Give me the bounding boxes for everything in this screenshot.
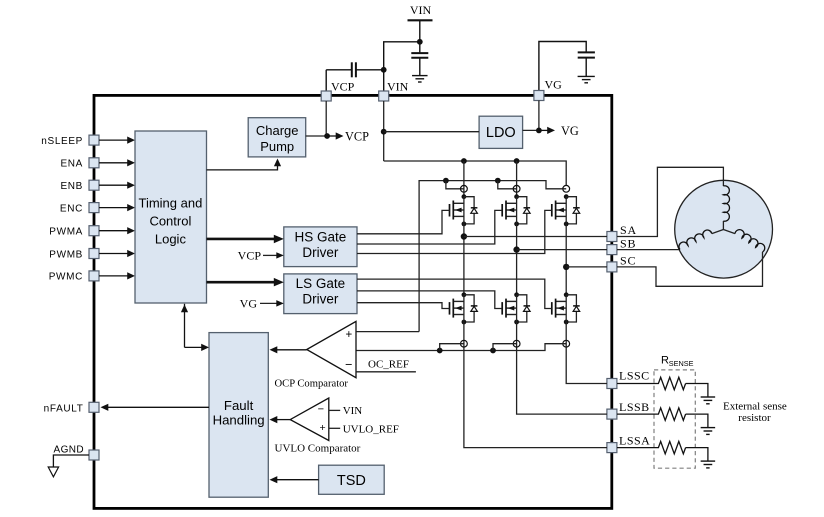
wire OCP tap elbow B [493, 344, 517, 351]
op-amp OCP comparator [307, 321, 356, 377]
transistor QB-LS (low-side B) [502, 292, 530, 324]
wire OCP output [270, 346, 307, 353]
wire UVLO output [270, 416, 291, 423]
wire ENA to logic [99, 159, 135, 166]
inductor winding B [679, 230, 723, 250]
svg-text:PWMB: PWMB [49, 249, 83, 260]
node OCP tap B [490, 348, 496, 354]
transistor QC-LS (low-side C) [552, 292, 580, 324]
node charge-pump/VCP junction [324, 133, 330, 139]
svg-text:SA: SA [620, 223, 637, 237]
sense tap bubble QC-LS [563, 340, 570, 347]
svg-text:External sense: External sense [723, 400, 787, 412]
svg-text:TSD: TSD [337, 473, 366, 489]
block Charge Pump [248, 118, 306, 157]
pin ENC [60, 203, 99, 215]
pin ENB [60, 180, 99, 192]
wire OCP sense line [356, 344, 566, 351]
pin nFAULT [44, 402, 99, 414]
block LS Gate Driver [284, 274, 357, 314]
svg-text:nFAULT: nFAULT [44, 403, 84, 414]
svg-text:Fault: Fault [224, 398, 254, 413]
pin LSSA [607, 433, 650, 452]
wire VCP pin to charge-pump output [325, 101, 327, 136]
wire LSSB vertical [517, 322, 607, 414]
wire LS gate B [357, 291, 502, 309]
pin VIN [379, 80, 409, 101]
svg-text:Driver: Driver [302, 292, 339, 307]
block TSD [319, 465, 385, 494]
pin ENA [60, 158, 99, 170]
capacitor C3 (VG bypass) [539, 42, 595, 92]
ground (RSENSE-C) [701, 397, 716, 404]
node phase B [513, 246, 519, 252]
wire nSLEEP to logic [99, 137, 135, 144]
pin PWMB [49, 249, 99, 261]
svg-text:VIN: VIN [387, 80, 409, 94]
svg-text:Control: Control [149, 214, 191, 229]
wire SB to motor [617, 249, 680, 251]
svg-text:PWMC: PWMC [49, 272, 83, 283]
svg-text:LS Gate: LS Gate [296, 276, 346, 291]
ground (VG bypass cap) [578, 76, 595, 82]
node VDS tap B [495, 178, 501, 184]
block Fault Handling [209, 333, 268, 498]
node phase C [563, 264, 569, 270]
svg-text:ENB: ENB [60, 181, 83, 192]
wire OCP tap elbow A [440, 344, 464, 351]
resistor RSENSE-B [617, 408, 708, 427]
ground (RSENSE-A) [701, 461, 716, 468]
wire PWMC to logic [99, 272, 135, 279]
op-amp UVLO comparator [290, 398, 329, 441]
node flying-cap junction [381, 67, 387, 73]
wire OCP+ input [356, 331, 419, 333]
wire phase C vertical [565, 224, 567, 295]
svg-text:PWMA: PWMA [49, 227, 83, 238]
net VIN (UVLO input) [329, 405, 363, 417]
svg-text:LDO: LDO [486, 125, 516, 141]
wire phase B vertical [516, 224, 518, 295]
svg-text:Charge: Charge [256, 123, 299, 138]
svg-text:SB: SB [620, 236, 636, 250]
wire VDS tap elbow B [498, 181, 517, 189]
wire TSD to fault [270, 476, 319, 483]
svg-text:R: R [661, 355, 669, 367]
pin LSSC [607, 368, 650, 388]
sense tap bubble QB-HS [513, 185, 520, 192]
label RSENSE [661, 355, 694, 368]
ground (VIN bypass cap) [412, 76, 428, 82]
svg-text:SC: SC [620, 254, 636, 268]
node drain rail A [461, 158, 467, 164]
wire logic-fault link [181, 304, 209, 351]
sense tap bubble QA-LS [461, 340, 468, 347]
wire HS gate B [357, 210, 502, 244]
svg-text:nSLEEP: nSLEEP [41, 136, 83, 147]
wire LS gate C [357, 279, 552, 308]
pin PWMA [49, 226, 99, 238]
pin SA [607, 223, 637, 242]
block HS Gate Driver [284, 227, 357, 267]
transistor QA-LS (low-side A) [450, 292, 478, 324]
wire VIN supply down [419, 20, 421, 42]
wire PWMB to logic [99, 250, 135, 257]
wire SC to pin [566, 266, 607, 268]
svg-text:Handling: Handling [213, 413, 265, 428]
net OC_REF [356, 358, 416, 371]
svg-text:Logic: Logic [155, 232, 187, 247]
svg-text:UVLO Comparator: UVLO Comparator [275, 442, 361, 454]
inductor winding C [723, 230, 764, 253]
capacitor C1 (VIN bypass) [411, 42, 428, 76]
svg-text:ENA: ENA [60, 159, 83, 170]
svg-text:VG: VG [545, 78, 563, 92]
wire ENC to logic [99, 204, 135, 211]
wire charge-pump output [306, 135, 327, 137]
svg-text:VG: VG [240, 296, 258, 310]
block Timing and Control Logic [135, 131, 207, 303]
net label VIN (supply) [410, 3, 432, 17]
svg-text:Driver: Driver [302, 245, 339, 260]
wire SB to pin [517, 249, 607, 251]
wire drain drop B [516, 161, 518, 197]
wire fault to nFAULT pin [101, 404, 210, 411]
transistor QB-HS (high-side B) [502, 194, 530, 226]
transistor QA-HS (high-side A) [450, 194, 478, 226]
ground (RSENSE-B) [701, 428, 716, 435]
node VIN/LDO junction [381, 129, 387, 135]
wire PWMA to logic [99, 227, 135, 234]
sense tap bubble QB-LS [513, 340, 520, 347]
label UVLO Comparator [275, 442, 361, 454]
sense tap bubble QC-HS [563, 185, 570, 192]
wire SA to motor [617, 167, 723, 236]
wire HS gate A [357, 210, 450, 233]
wire phase A vertical [463, 224, 465, 295]
net VCP input to HS driver [238, 249, 284, 263]
svg-text:SENSE: SENSE [669, 359, 694, 368]
svg-text:LSSB: LSSB [619, 400, 650, 414]
wire VDS sense rail [419, 181, 566, 332]
capacitor C2 (VCP flying cap) [326, 62, 384, 91]
svg-text:VIN: VIN [343, 405, 363, 417]
svg-text:VIN: VIN [410, 3, 432, 17]
bus logic to HS gate driver [207, 235, 284, 244]
node VIN-cap junction [417, 39, 423, 45]
pin VCP [321, 80, 354, 101]
svg-text:LSSC: LSSC [619, 368, 650, 382]
wire VDS tap elbow A [446, 181, 464, 189]
supply bar VIN [408, 19, 433, 21]
inductor winding A [723, 186, 729, 230]
net VG input to LS driver [240, 296, 284, 310]
wire AGND stub [53, 455, 89, 467]
node drain rail B [514, 158, 520, 164]
svg-text:LSSA: LSSA [619, 433, 650, 447]
svg-text:−: − [318, 404, 324, 416]
pin VG [534, 78, 562, 101]
pin SC [607, 254, 636, 272]
svg-text:AGND: AGND [54, 444, 85, 455]
svg-text:Timing and: Timing and [138, 195, 202, 210]
wire VIN drain rail [384, 161, 567, 185]
svg-text:HS Gate: HS Gate [295, 230, 347, 245]
sense resistor enclosure (dashed) [654, 370, 695, 468]
node OCP tap A [437, 348, 443, 354]
svg-text:VCP: VCP [238, 249, 262, 263]
transistor QC-HS (high-side C) [552, 194, 580, 226]
ground AGND (open triangle) [48, 467, 58, 477]
motor body (BLDC) [675, 180, 773, 278]
pin PWMC [49, 271, 99, 283]
wire HS gate C [357, 210, 552, 253]
wire ENB to logic [99, 182, 135, 189]
wire logic to charge pump [207, 159, 282, 170]
bus logic to LS gate driver [207, 278, 284, 287]
net arrow VG (internal rail) [539, 124, 579, 138]
svg-text:ENC: ENC [60, 203, 83, 214]
net UVLO_REF [329, 423, 399, 435]
label external sense resistor [723, 400, 787, 424]
wire LSSC vertical [566, 322, 607, 384]
wire VIN to LDO input [384, 131, 479, 133]
svg-text:Pump: Pump [260, 139, 294, 154]
resistor RSENSE-A [617, 441, 708, 460]
svg-text:+: + [320, 422, 326, 434]
svg-text:VCP: VCP [345, 130, 369, 144]
wire SA to pin [464, 236, 607, 238]
svg-text:UVLO_REF: UVLO_REF [343, 423, 399, 435]
wire drain drop A [463, 161, 465, 197]
node VDS tap A [443, 178, 449, 184]
svg-text:OC_REF: OC_REF [368, 358, 409, 370]
svg-text:+: + [345, 329, 352, 341]
wire VIN pin down [383, 101, 385, 161]
pin AGND [54, 444, 100, 460]
wire VG pin down [538, 101, 540, 131]
svg-text:−: − [345, 358, 352, 372]
svg-text:VG: VG [561, 124, 579, 138]
resistor RSENSE-C [617, 377, 708, 396]
svg-text:OCP Comparator: OCP Comparator [275, 378, 349, 389]
pin LSSB [607, 400, 650, 419]
wire SC to motor [617, 252, 763, 286]
pin SB [607, 236, 636, 254]
wire VIN to VIN pin [384, 42, 420, 92]
wire LS gate A [357, 303, 450, 309]
sense tap bubble QA-HS [461, 185, 468, 192]
node phase A [461, 233, 467, 239]
pin nSLEEP [41, 135, 99, 147]
svg-text:VCP: VCP [331, 80, 355, 94]
node LDO/VG junction [536, 127, 542, 133]
wire LDO output [523, 129, 539, 131]
device boundary [94, 95, 612, 508]
block LDO [479, 116, 522, 148]
net arrow VCP (internal rail) [327, 130, 369, 144]
label OCP Comparator [275, 378, 349, 389]
wire LSSA vertical [464, 322, 607, 448]
svg-text:resistor: resistor [738, 412, 771, 424]
